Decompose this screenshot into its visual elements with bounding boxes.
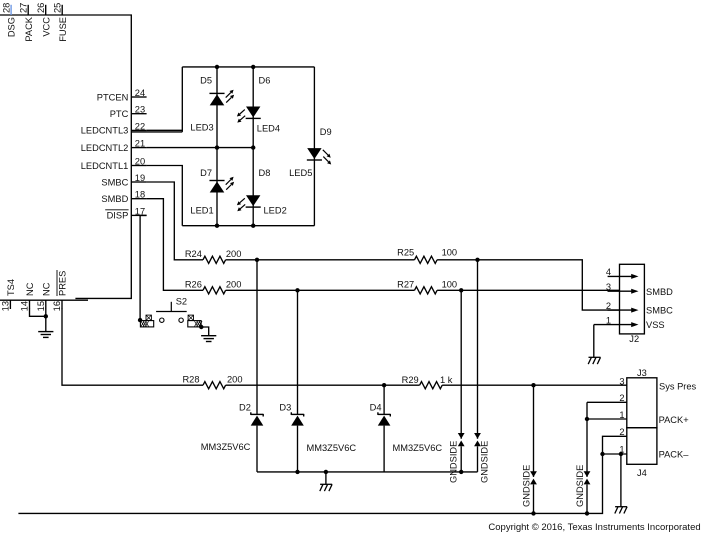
svg-text:PACK: PACK: [24, 16, 34, 41]
junction J4 pin1 / ground drop: [619, 452, 623, 456]
wire LED branch D6/D8: [252, 67, 254, 226]
net GNDSIDE A (from R27 node): [448, 290, 464, 483]
svg-text:PACK+: PACK+: [659, 415, 689, 425]
svg-text:2: 2: [619, 427, 624, 437]
svg-text:J3: J3: [637, 368, 647, 378]
svg-text:3: 3: [619, 377, 624, 387]
net label PACK-: [659, 450, 690, 460]
wire SMBC (pin19) down to R24 row: [147, 182, 203, 260]
wire R24 to R25: [226, 259, 415, 261]
wire LEDCNTL1 to LED bottom rail: [147, 166, 183, 226]
resistor R29: [402, 375, 453, 389]
svg-text:VSS: VSS: [646, 320, 665, 330]
copyright note: [488, 522, 700, 533]
svg-text:D3: D3: [279, 402, 291, 412]
resistor R27: [397, 280, 457, 294]
junction R29/GNDSIDE: [531, 383, 535, 387]
junction bottom rail / GNDSIDE D: [585, 511, 589, 515]
junction middle rail at D6 branch: [251, 145, 255, 149]
connector J4 pin 1: [603, 445, 627, 455]
wire DISP (pin17) down to S2: [140, 215, 147, 320]
svg-text:D6: D6: [259, 76, 271, 86]
zener diode D3: [279, 402, 303, 425]
junction bottom rail at D5 branch: [215, 224, 219, 228]
svg-text:1: 1: [619, 410, 624, 420]
svg-text:S2: S2: [176, 296, 187, 306]
connector J3 pin 3: [619, 377, 624, 387]
svg-text:LED4: LED4: [257, 124, 280, 134]
wire R24 node down to D2: [256, 260, 258, 415]
svg-text:25: 25: [52, 3, 62, 13]
pin 22 LEDCNTL3: [81, 121, 147, 135]
svg-text:D4: D4: [370, 402, 382, 412]
wire R25 to J2 pin2: [437, 260, 619, 310]
svg-text:LED5: LED5: [289, 168, 312, 178]
junction R26/D3: [295, 288, 299, 292]
LED D7: [200, 168, 234, 193]
svg-text:LED1: LED1: [190, 206, 213, 216]
pin 13 TS4: [1, 279, 16, 311]
svg-text:16: 16: [52, 301, 62, 311]
wire SMBD (pin18) down to R26 row: [147, 199, 203, 291]
svg-text:100: 100: [442, 280, 458, 290]
svg-text:4: 4: [606, 267, 611, 277]
svg-text:PTCEN: PTCEN: [97, 92, 129, 102]
svg-text:VCC: VCC: [41, 17, 51, 37]
wire PRES (pin16) down to R28 row: [62, 309, 203, 386]
LED D8: [237, 168, 270, 211]
svg-text:D8: D8: [259, 168, 271, 178]
svg-text:PRES: PRES: [58, 271, 68, 296]
pin 20 LEDCNTL1: [81, 157, 147, 171]
svg-text:18: 18: [135, 190, 145, 200]
svg-text:SMBD: SMBD: [646, 287, 673, 297]
svg-text:MM3Z5V6C: MM3Z5V6C: [393, 443, 443, 453]
chassis ground (zener rail): [320, 484, 332, 491]
svg-text:24: 24: [135, 88, 145, 98]
svg-text:27: 27: [18, 3, 28, 13]
svg-text:100: 100: [442, 248, 458, 258]
IC boundary (edge of off-page device): [0, 15, 131, 300]
svg-text:GNDSIDE: GNDSIDE: [522, 465, 532, 507]
svg-text:Sys Pres: Sys Pres: [659, 381, 697, 391]
net label Sys Pres: [659, 381, 697, 391]
pin 24 PTCEN: [97, 88, 147, 102]
connector J4 pin 2: [619, 427, 624, 437]
svg-text:LEDCNTL1: LEDCNTL1: [81, 161, 129, 171]
svg-text:19: 19: [135, 173, 145, 183]
svg-text:R27: R27: [397, 280, 414, 290]
pin 28 DSG: [1, 3, 16, 38]
junction R25/GNDSIDE: [475, 258, 479, 262]
svg-text:1 k: 1 k: [440, 375, 453, 385]
svg-text:22: 22: [135, 121, 145, 131]
junction middle rail at D5 branch: [215, 145, 219, 149]
junction D3/rail: [295, 470, 299, 474]
svg-text:D5: D5: [200, 76, 212, 86]
wire D2 to rail: [256, 426, 258, 472]
wire zener bottom rail: [257, 471, 478, 473]
svg-text:GNDSIDE: GNDSIDE: [575, 465, 585, 507]
junction top rail at D6 branch: [251, 65, 255, 69]
chassis ground (J4): [615, 507, 627, 514]
resistor R28: [182, 375, 242, 389]
resistor R25: [397, 248, 457, 264]
junction rail/GNDSIDE A: [459, 470, 463, 474]
svg-text:LED3: LED3: [190, 122, 213, 132]
svg-text:TS4: TS4: [6, 279, 16, 296]
pin 21 LEDCNTL2: [81, 139, 147, 153]
svg-text:SMBD: SMBD: [101, 194, 128, 204]
junction R27/GNDSIDE: [459, 288, 463, 292]
svg-text:28: 28: [1, 3, 11, 13]
ground (S2): [201, 336, 216, 342]
connector J2 pin 1: [594, 315, 639, 327]
net GNDSIDE B (from R25 node): [474, 260, 489, 483]
wire S2 to ground: [201, 327, 208, 336]
wire LED branch D9 (right edge): [313, 67, 315, 226]
junction rail/ground: [324, 470, 328, 474]
wire LED bottom rail: [182, 225, 314, 227]
svg-text:3: 3: [606, 282, 611, 292]
svg-text:NC: NC: [41, 282, 51, 296]
junction J4 pin1 / bottom riser: [600, 452, 604, 456]
junction NC tie: [44, 314, 48, 318]
svg-text:2: 2: [606, 301, 611, 311]
ground (NC pins): [38, 332, 53, 338]
value label MM3Z5V6C (D4): [393, 443, 443, 453]
connector J2 pin 2: [606, 301, 639, 313]
value label LED3: [190, 122, 213, 132]
svg-text:GNDSIDE: GNDSIDE: [479, 441, 489, 483]
chassis ground (J2 VSS): [588, 357, 600, 364]
svg-text:R28: R28: [182, 375, 199, 385]
svg-text:LEDCNTL3: LEDCNTL3: [81, 126, 129, 136]
wire LEDCNTL3 to LED array top rail (double line jog): [131, 67, 182, 132]
LED D5: [200, 76, 234, 106]
net label SMBC: [646, 305, 673, 315]
wire R26 node down to D3: [297, 290, 299, 414]
svg-text:LED2: LED2: [264, 206, 287, 216]
connector J2 pin 3: [606, 282, 639, 294]
svg-text:R25: R25: [397, 248, 414, 258]
wire D4 to rail: [383, 426, 385, 472]
pin 14 NC: [20, 282, 35, 311]
junction J3 pin1/pin2: [585, 417, 589, 421]
svg-text:Copyright © 2016, Texas Instru: Copyright © 2016, Texas Instruments Inco…: [488, 522, 700, 533]
svg-text:SMBC: SMBC: [101, 177, 128, 187]
svg-text:R26: R26: [185, 280, 202, 290]
svg-text:NC: NC: [25, 282, 35, 296]
connector J3 pin 2: [587, 393, 627, 419]
wire R26 to R27: [226, 289, 415, 291]
junction DISP/S2 left contact: [138, 318, 142, 322]
pin 23 PTC: [110, 105, 147, 119]
pin 18 SMBD: [101, 190, 146, 204]
junction R24/D2: [255, 258, 259, 262]
svg-text:23: 23: [135, 105, 145, 115]
pin 16 PRES: [52, 270, 67, 311]
pin 25 FUSE: [52, 3, 67, 42]
junction R28/R29/D4: [382, 383, 386, 387]
pin 15 NC: [36, 282, 51, 311]
switch S2 (pushbutton): [140, 296, 202, 327]
junction bottom rail / GNDSIDE C: [531, 511, 535, 515]
wire LED top rail: [182, 66, 314, 68]
connector J3 pin 1: [587, 410, 627, 420]
value label LED2: [264, 206, 287, 216]
value label LED4: [257, 124, 280, 134]
pin 17 DISP: [105, 206, 146, 220]
value label MM3Z5V6C (D3): [307, 443, 357, 453]
junction bottom rail at D6 branch: [251, 224, 255, 228]
junction top rail at D5 branch: [215, 65, 219, 69]
wire D3 to rail: [297, 426, 299, 472]
svg-text:20: 20: [135, 157, 145, 167]
wire bottom GNDSIDE rail to J4 pin 2: [18, 436, 626, 513]
value label MM3Z5V6C (D2): [201, 442, 251, 452]
connector J3: [627, 368, 657, 428]
svg-text:PTC: PTC: [110, 109, 129, 119]
resistor R26: [185, 280, 242, 294]
value label LED5: [289, 168, 312, 178]
svg-text:J2: J2: [629, 334, 639, 344]
svg-text:1: 1: [606, 315, 611, 325]
svg-text:26: 26: [36, 3, 46, 13]
pin 26 VCC: [36, 3, 51, 37]
junction S2 right contact: [199, 325, 203, 329]
svg-text:R29: R29: [402, 375, 419, 385]
svg-text:D7: D7: [200, 168, 212, 178]
resistor R24: [185, 249, 242, 263]
svg-text:GNDSIDE: GNDSIDE: [448, 441, 458, 483]
svg-text:2: 2: [619, 393, 624, 403]
LED D6: [237, 76, 270, 123]
svg-text:21: 21: [135, 139, 145, 149]
net label PACK+: [659, 415, 689, 425]
net label VSS: [646, 320, 665, 330]
svg-text:MM3Z5V6C: MM3Z5V6C: [307, 443, 357, 453]
svg-text:14: 14: [20, 301, 30, 311]
wire rail to chassis ground: [325, 472, 327, 484]
wire LEDCNTL2 middle rail: [147, 147, 254, 149]
svg-text:R24: R24: [185, 249, 202, 259]
wire NC pins 14/15 tie: [30, 309, 46, 332]
net label SMBD: [646, 287, 673, 297]
svg-text:200: 200: [227, 375, 243, 385]
LED D9: [307, 127, 332, 165]
wire R28 to R29: [226, 384, 420, 386]
svg-text:D2: D2: [239, 402, 251, 412]
wire R27 to J2 pin3: [437, 289, 619, 291]
connector J2: [620, 264, 645, 344]
pin 19 SMBC: [101, 173, 146, 187]
wire LED branch D5/D7: [216, 67, 218, 226]
svg-text:FUSE: FUSE: [58, 17, 68, 42]
svg-text:DSG: DSG: [7, 17, 17, 37]
pin 27 PACK: [18, 3, 33, 42]
svg-text:PACK–: PACK–: [659, 450, 690, 460]
svg-text:LEDCNTL2: LEDCNTL2: [81, 143, 129, 153]
wire R29 to J3 pin3: [442, 384, 627, 386]
svg-text:D9: D9: [320, 127, 332, 137]
svg-text:200: 200: [226, 280, 242, 290]
connector J2 pin 4: [606, 267, 639, 279]
svg-text:DISP: DISP: [107, 211, 129, 221]
svg-text:MM3Z5V6C: MM3Z5V6C: [201, 442, 251, 452]
svg-text:13: 13: [1, 301, 11, 311]
zener diode D4: [370, 402, 391, 425]
connector J4: [627, 428, 657, 478]
value label LED1: [190, 206, 213, 216]
zener diode D2: [239, 402, 263, 425]
wire J2 pin1 to chassis ground: [593, 325, 595, 358]
net GNDSIDE C (from R29 node): [522, 385, 537, 513]
wire J4 pin1 to chassis ground: [620, 454, 622, 507]
net GNDSIDE D (J3 pins 1/2): [575, 419, 590, 513]
svg-text:200: 200: [226, 249, 242, 259]
svg-text:J4: J4: [637, 468, 647, 478]
wire R28/R29 node down to D4: [383, 385, 385, 414]
svg-text:SMBC: SMBC: [646, 305, 673, 315]
svg-text:15: 15: [36, 301, 46, 311]
